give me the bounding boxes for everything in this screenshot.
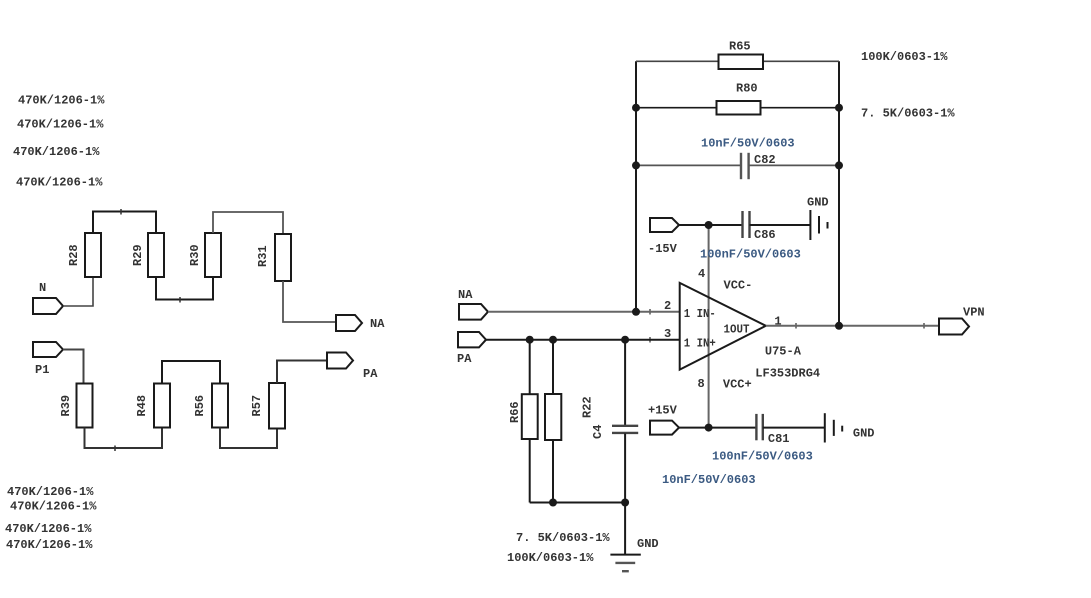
junction dot output rail bbox=[835, 322, 843, 330]
svg-text:470K/1206-1%: 470K/1206-1% bbox=[10, 500, 97, 514]
svg-text:470K/1206-1%: 470K/1206-1% bbox=[5, 522, 92, 536]
pin tick near VPN bbox=[923, 323, 925, 329]
wire R48 top to R56 top bbox=[162, 361, 220, 384]
svg-text:470K/1206-1%: 470K/1206-1% bbox=[13, 145, 100, 159]
svg-text:R48: R48 bbox=[135, 395, 149, 417]
wire R31 bottom to NA bbox=[283, 281, 336, 322]
junction dot +15V bbox=[705, 424, 713, 432]
svg-text:LF353DRG4: LF353DRG4 bbox=[755, 367, 820, 381]
resistor R29 bbox=[148, 233, 164, 277]
svg-text:2: 2 bbox=[664, 299, 671, 313]
wire R57 top to PA bbox=[277, 361, 327, 384]
pin tick on PA wire bbox=[649, 337, 651, 343]
pin tick on R29-R30 wire bbox=[179, 297, 181, 303]
svg-text:1 IN+: 1 IN+ bbox=[684, 336, 716, 350]
wire R66 top bbox=[529, 340, 531, 395]
wire C81 to GND bbox=[763, 427, 825, 429]
resistor R66 bbox=[522, 394, 538, 439]
svg-text:+15V: +15V bbox=[648, 404, 678, 418]
capacitor C82 bbox=[740, 153, 742, 179]
svg-text:-15V: -15V bbox=[648, 242, 678, 256]
svg-text:GND: GND bbox=[637, 537, 659, 551]
connector NA (right block) bbox=[459, 304, 488, 320]
junction dot NA rail bbox=[632, 308, 640, 316]
wire R39 bottom to R48 bottom bbox=[85, 428, 163, 449]
svg-text:R31: R31 bbox=[256, 245, 270, 267]
wire +15V to C81 bbox=[679, 427, 756, 429]
svg-text:470K/1206-1%: 470K/1206-1% bbox=[16, 175, 103, 189]
svg-text:1 IN-: 1 IN- bbox=[684, 307, 716, 321]
right feedback rail bbox=[838, 61, 840, 326]
svg-text:C81: C81 bbox=[768, 432, 790, 446]
wire R56 bottom to R57 bottom bbox=[220, 428, 277, 449]
resistor R31 bbox=[275, 234, 291, 281]
left feedback rail bbox=[635, 61, 637, 312]
junction dot right R80 bbox=[835, 104, 843, 112]
svg-text:4: 4 bbox=[698, 267, 705, 281]
wire R22 bottom bbox=[552, 440, 554, 503]
resistor R57 bbox=[269, 383, 285, 429]
resistor R56 bbox=[212, 384, 228, 428]
svg-text:PA: PA bbox=[363, 367, 378, 381]
wire C4 top bbox=[624, 340, 626, 425]
svg-text:C86: C86 bbox=[754, 228, 776, 242]
svg-text:10nF/50V/0603: 10nF/50V/0603 bbox=[662, 473, 756, 487]
op-amp U75-A triangle bbox=[680, 283, 766, 370]
svg-text:VPN: VPN bbox=[963, 306, 985, 320]
svg-text:470K/1206-1%: 470K/1206-1% bbox=[6, 538, 93, 552]
wire PA to pin3 bbox=[486, 339, 680, 341]
capacitor C86 bbox=[741, 211, 743, 238]
svg-text:7. 5K/0603-1%: 7. 5K/0603-1% bbox=[516, 531, 610, 545]
svg-text:10nF/50V/0603: 10nF/50V/0603 bbox=[701, 137, 795, 151]
wire N to R28 bbox=[63, 277, 93, 306]
svg-text:100K/0603-1%: 100K/0603-1% bbox=[507, 551, 594, 565]
wire output to VPN bbox=[766, 325, 939, 327]
svg-text:VCC-: VCC- bbox=[724, 279, 753, 293]
junction dot R22 bbox=[549, 336, 557, 344]
resistor R28 bbox=[85, 233, 101, 277]
svg-text:R56: R56 bbox=[193, 395, 207, 417]
connector -15V bbox=[650, 218, 679, 232]
capacitor C4 bbox=[612, 425, 638, 427]
pin tick on output wire bbox=[795, 323, 797, 329]
wire R80 net bbox=[636, 107, 839, 109]
junction dot C4 bbox=[621, 336, 629, 344]
svg-text:1OUT: 1OUT bbox=[724, 323, 750, 337]
junction dot C4 bottom bbox=[621, 499, 629, 507]
junction dot left C82 bbox=[632, 161, 640, 169]
connector NA (left block) bbox=[336, 315, 362, 331]
svg-text:470K/1206-1%: 470K/1206-1% bbox=[7, 485, 94, 499]
ground (sideways) at C86 bbox=[809, 210, 811, 240]
wire C82 net left bbox=[636, 164, 741, 166]
svg-text:R29: R29 bbox=[131, 244, 145, 266]
svg-text:GND: GND bbox=[807, 196, 829, 210]
wire C82 net right bbox=[749, 164, 839, 166]
pin tick on R39-R48 wire bbox=[114, 446, 116, 452]
VCC vertical wire pin4 to pin8 bbox=[708, 225, 710, 428]
wire R66 bottom bbox=[529, 439, 531, 503]
connector VPN bbox=[939, 319, 969, 335]
resistor R39 bbox=[77, 384, 93, 428]
svg-text:NA: NA bbox=[458, 288, 473, 302]
ground (bottom) bbox=[610, 554, 640, 556]
svg-text:GND: GND bbox=[853, 427, 875, 441]
svg-text:PA: PA bbox=[457, 352, 472, 366]
svg-text:R57: R57 bbox=[250, 395, 264, 417]
junction dot left R80 bbox=[632, 104, 640, 112]
svg-text:R80: R80 bbox=[736, 82, 758, 96]
capacitor C81 bbox=[755, 414, 757, 440]
junction dot R66 bbox=[526, 336, 534, 344]
wire R30 top to R31 top bbox=[213, 212, 283, 234]
wire P1 to R39 bbox=[63, 350, 84, 384]
connector P1 bbox=[33, 342, 63, 357]
pin tick on NA wire bbox=[649, 309, 651, 315]
connector PA (left block) bbox=[327, 353, 353, 369]
svg-text:R22: R22 bbox=[581, 396, 595, 418]
resistor R30 bbox=[205, 233, 221, 277]
resistor R80 bbox=[717, 101, 761, 115]
junction dot -15V bbox=[705, 221, 713, 229]
svg-text:R65: R65 bbox=[729, 40, 751, 54]
svg-text:R39: R39 bbox=[59, 395, 73, 417]
connector PA (right block) bbox=[458, 332, 486, 347]
ground (sideways) at C81 bbox=[824, 413, 826, 442]
svg-text:C4: C4 bbox=[591, 425, 605, 439]
wire R29 bottom to R30 bottom bbox=[156, 277, 213, 300]
svg-text:100nF/50V/0603: 100nF/50V/0603 bbox=[712, 450, 813, 464]
connector N bbox=[33, 298, 63, 314]
svg-text:470K/1206-1%: 470K/1206-1% bbox=[17, 118, 104, 132]
junction dot R22 bottom bbox=[549, 499, 557, 507]
svg-text:100K/0603-1%: 100K/0603-1% bbox=[861, 50, 948, 64]
svg-text:NA: NA bbox=[370, 317, 385, 331]
wire R65 net bbox=[636, 60, 839, 62]
svg-text:8: 8 bbox=[698, 377, 705, 391]
svg-text:R30: R30 bbox=[188, 244, 202, 266]
svg-text:N: N bbox=[39, 281, 46, 295]
wire C4 bottom to GND bbox=[624, 434, 626, 555]
svg-text:R66: R66 bbox=[508, 401, 522, 423]
wire R28 top to R29 top bbox=[93, 212, 156, 234]
wire NA to pin2 bbox=[488, 311, 680, 313]
wire R22 top bbox=[552, 340, 554, 394]
wire -15V to C86 bbox=[679, 224, 743, 226]
svg-text:P1: P1 bbox=[35, 363, 49, 377]
svg-text:470K/1206-1%: 470K/1206-1% bbox=[18, 94, 105, 108]
svg-text:R28: R28 bbox=[67, 244, 81, 266]
wire C86 to GND bbox=[750, 224, 811, 226]
pin tick on R28-R29 rail bbox=[120, 209, 122, 215]
connector +15V bbox=[650, 421, 679, 435]
svg-text:VCC+: VCC+ bbox=[723, 378, 752, 392]
svg-text:100nF/50V/0603: 100nF/50V/0603 bbox=[700, 248, 801, 262]
bottom bus wire bbox=[530, 502, 625, 504]
junction dot right C82 bbox=[835, 161, 843, 169]
resistor R48 bbox=[154, 384, 170, 428]
resistor R65 bbox=[719, 55, 764, 70]
svg-text:3: 3 bbox=[664, 327, 671, 341]
resistor R22 bbox=[545, 394, 561, 440]
svg-text:U75-A: U75-A bbox=[765, 345, 802, 359]
svg-text:7. 5K/0603-1%: 7. 5K/0603-1% bbox=[861, 107, 955, 121]
